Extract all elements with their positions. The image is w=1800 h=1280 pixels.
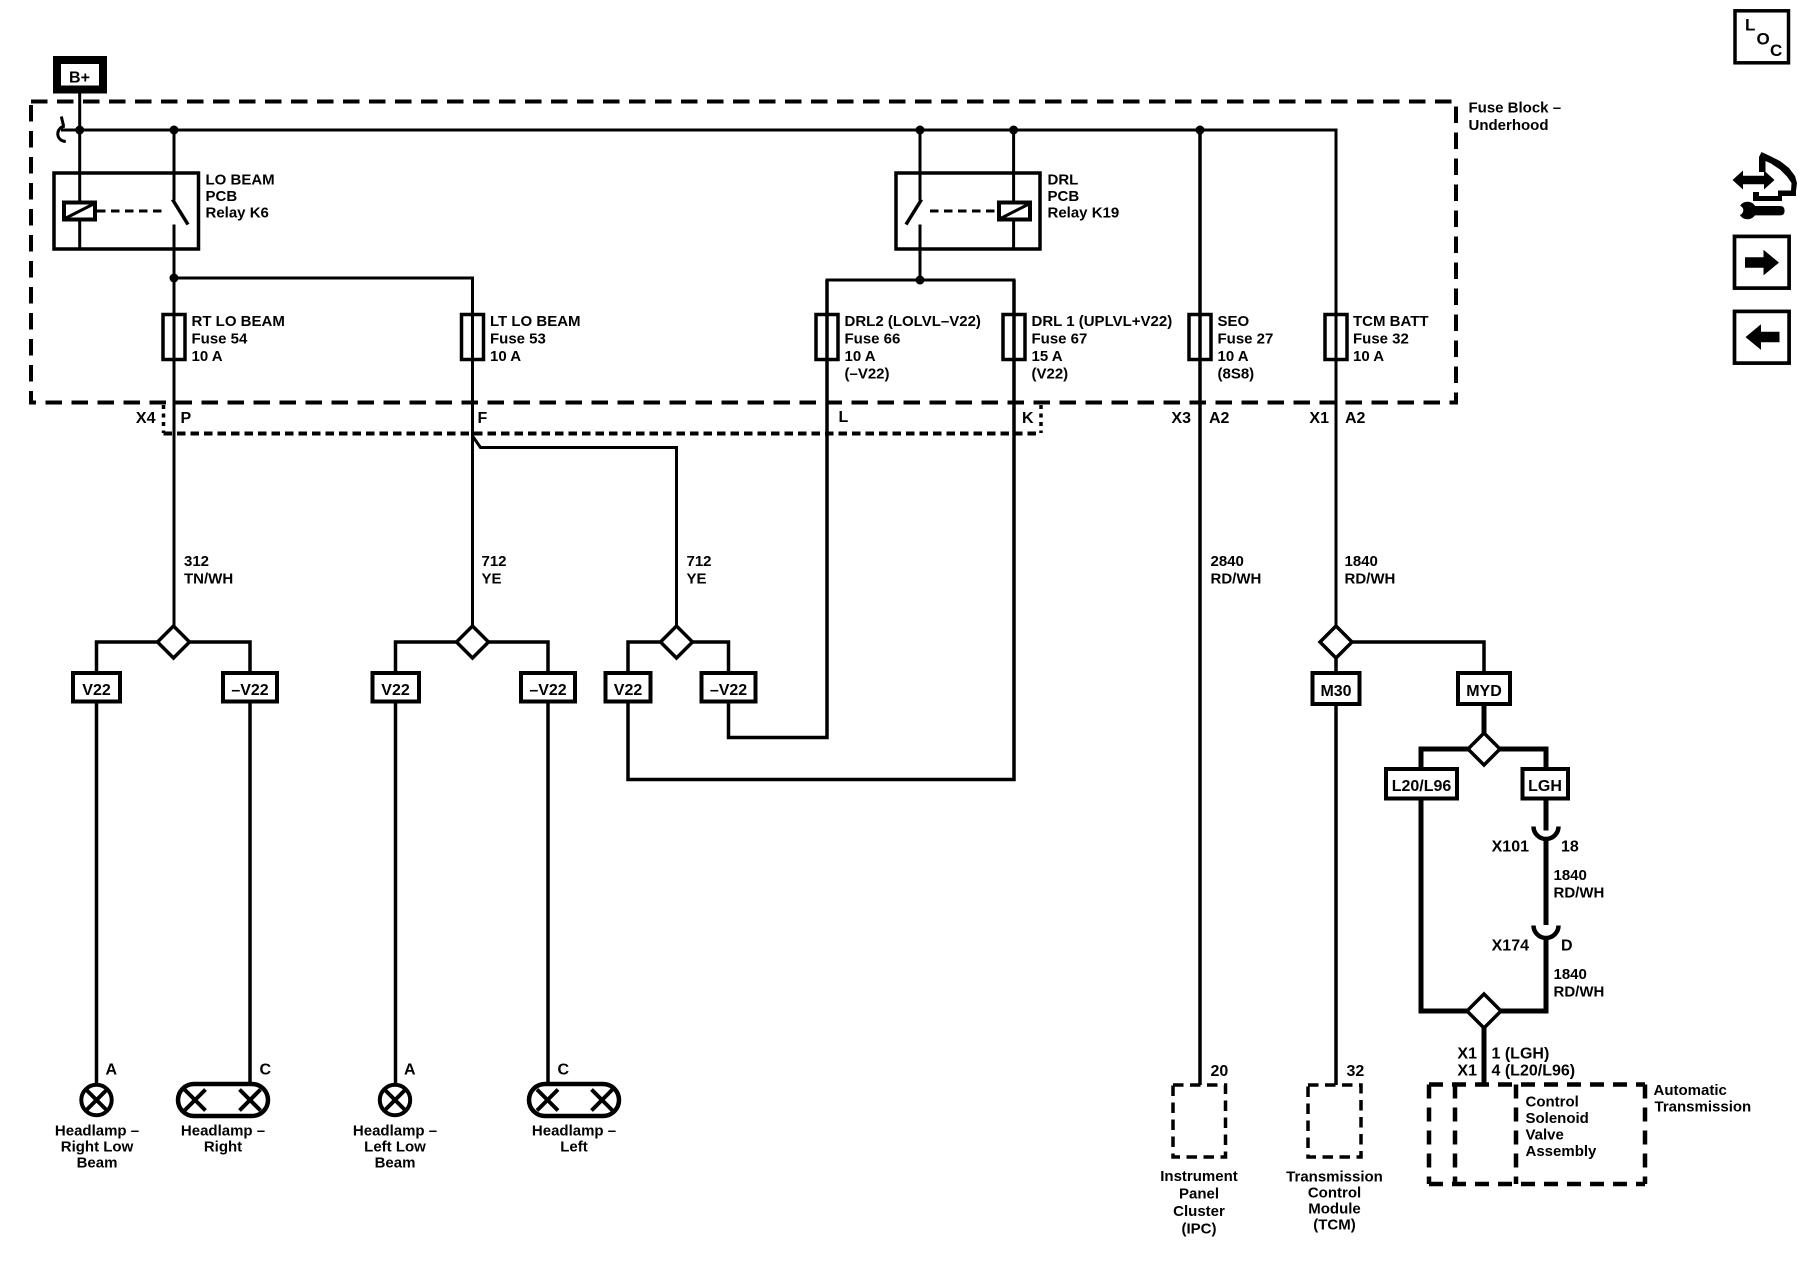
svg-text:PCB: PCB xyxy=(206,188,238,205)
svg-text:Valve: Valve xyxy=(1526,1127,1564,1144)
svg-text:Beam: Beam xyxy=(375,1155,416,1172)
svg-text:Transmission: Transmission xyxy=(1286,1169,1383,1186)
svg-text:X3: X3 xyxy=(1171,410,1191,427)
svg-text:LT LO BEAM: LT LO BEAM xyxy=(490,313,581,330)
svg-text:Relay K19: Relay K19 xyxy=(1048,205,1120,222)
svg-text:TCM BATT: TCM BATT xyxy=(1353,313,1429,330)
wire K6 switch output to fuses 54/53 xyxy=(174,225,473,315)
connector X4 dotted separator xyxy=(162,405,166,433)
svg-text:SEO: SEO xyxy=(1218,313,1250,330)
svg-text:A2: A2 xyxy=(1209,410,1230,427)
wire net F jog branch 712 YE xyxy=(473,436,677,626)
svg-text:DRL2 (LOLVL–V22): DRL2 (LOLVL–V22) xyxy=(845,313,981,330)
svg-text:YE: YE xyxy=(687,571,707,588)
svg-text:312: 312 xyxy=(184,553,209,570)
fuse 27 SEO xyxy=(1189,315,1211,360)
svg-text:10 A: 10 A xyxy=(1218,348,1249,365)
svg-text:1840: 1840 xyxy=(1345,553,1378,570)
inline connector X174 pin D xyxy=(1534,926,1559,939)
splice diamond 2 xyxy=(457,626,489,658)
svg-text:M30: M30 xyxy=(1320,683,1351,700)
bus hook terminal xyxy=(61,117,63,127)
wire relay K19 coil return xyxy=(1012,220,1015,249)
svg-text:Headlamp –: Headlamp – xyxy=(181,1123,265,1140)
svg-text:Cluster: Cluster xyxy=(1173,1203,1225,1220)
node: bus junction at coil K19 xyxy=(1009,126,1018,135)
svg-text:Solenoid: Solenoid xyxy=(1526,1110,1589,1127)
wire diamond3 to -V22 xyxy=(693,642,729,673)
svg-text:V22: V22 xyxy=(614,682,643,699)
relay K6 switch xyxy=(173,130,176,201)
wire label 1840 RD/WH xyxy=(1345,553,1396,588)
icon arrow right box xyxy=(1735,236,1790,288)
svg-text:1 (LGH): 1 (LGH) xyxy=(1492,1046,1550,1063)
svg-text:RD/WH: RD/WH xyxy=(1211,571,1262,588)
wire net TCM BATT 1840 RD/WH xyxy=(1335,315,1338,627)
wire diamond2 to -V22 xyxy=(489,642,549,673)
transmission control module box xyxy=(1308,1085,1361,1157)
svg-text:10 A: 10 A xyxy=(192,348,223,365)
svg-text:(IPC): (IPC) xyxy=(1182,1221,1217,1238)
wire MYD to engine split diamond xyxy=(1482,704,1487,733)
splice diamond 4 xyxy=(1320,626,1352,658)
wire -V22 to headlamp left xyxy=(546,702,550,1085)
instrument panel cluster box xyxy=(1173,1085,1226,1157)
svg-text:X101: X101 xyxy=(1492,839,1529,856)
label automatic transmission xyxy=(1654,1082,1752,1116)
svg-text:Fuse 66: Fuse 66 xyxy=(845,331,901,348)
svg-text:1840: 1840 xyxy=(1554,867,1587,884)
wire diamond5 to L20/L96 xyxy=(1421,749,1468,769)
wire -V22 to headlamp right xyxy=(248,702,252,1085)
svg-text:Assembly: Assembly xyxy=(1526,1143,1598,1160)
svg-text:C: C xyxy=(558,1062,570,1079)
svg-text:10 A: 10 A xyxy=(1353,348,1384,365)
svg-text:712: 712 xyxy=(482,553,507,570)
node: bus junction at switch K6 xyxy=(170,126,179,135)
wire diamond1 to -V22 xyxy=(190,642,251,673)
headlamp right lamp assembly xyxy=(178,1084,268,1116)
option box -V22 xyxy=(702,673,756,702)
wire label 712 YE xyxy=(687,553,712,588)
svg-text:(–V22): (–V22) xyxy=(845,366,890,383)
fuse 53 LT LO BEAM xyxy=(462,315,484,360)
svg-text:L: L xyxy=(1745,16,1755,35)
wire diamond2 to V22 xyxy=(396,642,457,673)
svg-text:Beam: Beam xyxy=(77,1155,118,1172)
svg-text:P: P xyxy=(181,410,192,427)
svg-text:B+: B+ xyxy=(69,70,90,87)
svg-text:Fuse 32: Fuse 32 xyxy=(1353,331,1409,348)
svg-text:Headlamp –: Headlamp – xyxy=(55,1123,139,1140)
wire relay K6 coil return xyxy=(78,220,81,249)
option box -V22 xyxy=(521,673,575,702)
wire net K fuse 67 to V22 splice xyxy=(628,280,1014,780)
svg-text:Transmission: Transmission xyxy=(1655,1099,1752,1116)
svg-text:10 A: 10 A xyxy=(490,348,521,365)
relay K19 coil xyxy=(999,203,1030,220)
wire diamond4 to MYD xyxy=(1352,642,1484,673)
svg-text:K: K xyxy=(1022,410,1034,427)
option box V22 xyxy=(606,673,651,702)
svg-text:Module: Module xyxy=(1308,1201,1361,1218)
relay K6 box xyxy=(54,173,199,249)
svg-text:RD/WH: RD/WH xyxy=(1345,571,1396,588)
icon wrench xyxy=(1734,202,1785,220)
option box L20/L96 xyxy=(1386,769,1457,799)
svg-text:F: F xyxy=(478,410,488,427)
wire X174 to merge diamond xyxy=(1501,938,1546,1012)
svg-text:18: 18 xyxy=(1561,839,1579,856)
svg-text:Fuse Block –: Fuse Block – xyxy=(1469,100,1562,117)
svg-text:Right: Right xyxy=(204,1139,242,1156)
svg-text:A: A xyxy=(106,1062,118,1079)
power symbol B+ xyxy=(57,60,103,90)
wire diamond5 to LGH xyxy=(1500,749,1546,769)
connector K dotted separator xyxy=(1039,405,1043,433)
fuse 67 DRL 1 xyxy=(1003,315,1025,360)
control solenoid valve assembly box xyxy=(1429,1085,1645,1185)
svg-text:X1: X1 xyxy=(1457,1063,1477,1080)
svg-text:MYD: MYD xyxy=(1466,683,1502,700)
splice diamond 1 xyxy=(158,626,190,658)
wire diamond3 to V22 xyxy=(628,642,661,673)
node: bus junction at SEO fuse xyxy=(1196,126,1205,135)
headlamp right low beam lamp xyxy=(81,1085,111,1115)
option box -V22 xyxy=(223,673,277,702)
svg-text:20: 20 xyxy=(1211,1063,1229,1080)
svg-text:(V22): (V22) xyxy=(1032,366,1069,383)
svg-text:1840: 1840 xyxy=(1554,966,1587,983)
svg-text:2840: 2840 xyxy=(1211,553,1244,570)
relay K6 coil xyxy=(64,203,95,220)
svg-text:YE: YE xyxy=(482,571,502,588)
svg-text:Fuse 54: Fuse 54 xyxy=(192,331,249,348)
splice diamond 5 xyxy=(1468,733,1500,765)
svg-text:Left Low: Left Low xyxy=(364,1139,426,1156)
inline connector X101 pin 18 xyxy=(1534,827,1559,839)
fuse block underhood dashed box xyxy=(31,102,1456,403)
option box LGH xyxy=(1523,769,1569,799)
svg-text:10 A: 10 A xyxy=(845,348,876,365)
splice diamond 6 xyxy=(1467,994,1501,1028)
svg-text:V22: V22 xyxy=(381,682,410,699)
icon jagged outline xyxy=(1753,152,1797,201)
svg-text:Control: Control xyxy=(1526,1094,1579,1111)
wire diamond1 to V22 xyxy=(97,642,158,673)
svg-text:L20/L96: L20/L96 xyxy=(1392,778,1452,795)
svg-text:RT LO BEAM: RT LO BEAM xyxy=(192,313,285,330)
svg-text:LO BEAM: LO BEAM xyxy=(206,172,275,189)
svg-text:L: L xyxy=(839,409,849,426)
svg-text:C: C xyxy=(260,1062,272,1079)
svg-text:X174: X174 xyxy=(1492,938,1529,955)
wire L20/L96 to merge diamond xyxy=(1421,799,1467,1012)
option box V22 xyxy=(73,673,120,702)
svg-text:712: 712 xyxy=(687,553,712,570)
svg-text:A2: A2 xyxy=(1345,410,1366,427)
connector face dotted line xyxy=(164,432,1042,436)
svg-text:V22: V22 xyxy=(82,682,111,699)
svg-text:Underhood: Underhood xyxy=(1469,117,1549,134)
svg-text:D: D xyxy=(1561,938,1573,955)
wire main bus B+ xyxy=(61,130,1336,315)
fuse 54 RT LO BEAM xyxy=(163,315,185,360)
svg-text:Headlamp –: Headlamp – xyxy=(353,1123,437,1140)
svg-text:X1: X1 xyxy=(1309,410,1329,427)
headlamp left low beam lamp xyxy=(380,1085,410,1115)
wire LGH to X101 xyxy=(1544,799,1549,831)
svg-text:Relay K6: Relay K6 xyxy=(206,205,269,222)
relay K6 label xyxy=(206,172,275,222)
svg-text:(TCM): (TCM) xyxy=(1313,1217,1355,1234)
wire diamond4 to M30 xyxy=(1334,658,1338,673)
wire label 312 TN/WH xyxy=(184,553,233,588)
svg-text:A: A xyxy=(404,1062,416,1079)
wire V22 to headlamp left low beam xyxy=(394,702,398,1085)
wire label 1840 RD/WH xyxy=(1554,966,1605,1001)
svg-text:DRL 1 (UPLVL+V22): DRL 1 (UPLVL+V22) xyxy=(1032,313,1173,330)
wire label 1840 RD/WH xyxy=(1554,867,1605,902)
wire label 2840 RD/WH xyxy=(1211,553,1262,588)
svg-text:RD/WH: RD/WH xyxy=(1554,885,1605,902)
svg-text:Fuse 27: Fuse 27 xyxy=(1218,331,1274,348)
node: bus junction at coil K6 xyxy=(75,126,84,135)
icon LOC box xyxy=(1735,11,1789,63)
svg-text:LGH: LGH xyxy=(1528,778,1562,795)
svg-text:O: O xyxy=(1757,30,1770,49)
svg-text:Automatic: Automatic xyxy=(1654,1082,1727,1099)
wire net L fuse 66 to -V22 splice xyxy=(729,280,828,738)
svg-text:Left: Left xyxy=(560,1139,588,1156)
svg-text:X4: X4 xyxy=(136,410,156,427)
svg-text:4 (L20/L96): 4 (L20/L96) xyxy=(1492,1063,1576,1080)
wire X101 to X174 xyxy=(1544,838,1549,925)
svg-text:–V22: –V22 xyxy=(231,682,268,699)
svg-text:C: C xyxy=(1770,41,1782,60)
svg-text:Control: Control xyxy=(1308,1185,1361,1202)
option box MYD xyxy=(1458,673,1510,704)
svg-text:Panel: Panel xyxy=(1179,1186,1219,1203)
svg-text:–V22: –V22 xyxy=(529,682,566,699)
wire M30 to TCM xyxy=(1334,704,1338,1085)
headlamp left lamp assembly xyxy=(529,1084,619,1116)
relay K6 control dashed link xyxy=(97,210,165,213)
wire net SEO 2840 RD/WH xyxy=(1198,130,1202,1085)
fuse 32 TCM BATT xyxy=(1325,315,1347,360)
relay K19 label xyxy=(1048,172,1120,222)
svg-text:PCB: PCB xyxy=(1048,188,1080,205)
wire V22 to headlamp right low beam xyxy=(95,702,99,1085)
svg-text:15 A: 15 A xyxy=(1032,348,1063,365)
svg-text:DRL: DRL xyxy=(1048,172,1079,189)
wire diamond6 to control solenoid xyxy=(1482,1028,1487,1085)
icon arrow left box xyxy=(1735,311,1790,363)
wire B+ feed to coil K6 xyxy=(78,94,81,203)
relay K19 switch xyxy=(919,130,922,201)
svg-text:X1: X1 xyxy=(1457,1046,1477,1063)
wire label 712 YE xyxy=(482,553,507,588)
svg-text:32: 32 xyxy=(1347,1063,1365,1080)
label Fuse Block - Underhood xyxy=(1469,100,1562,135)
wire net F through fuse 53 xyxy=(471,278,474,626)
svg-text:TN/WH: TN/WH xyxy=(184,571,233,588)
svg-text:Instrument: Instrument xyxy=(1160,1168,1238,1185)
wire relay K19 coil feed xyxy=(1012,130,1015,202)
svg-text:Fuse 53: Fuse 53 xyxy=(490,331,546,348)
option box M30 xyxy=(1313,673,1360,704)
svg-text:Right Low: Right Low xyxy=(61,1139,134,1156)
wire K19 switch output to fuses 66/67 xyxy=(919,225,922,281)
node: bus junction at switch K19 xyxy=(916,126,925,135)
svg-text:Headlamp –: Headlamp – xyxy=(532,1123,616,1140)
svg-text:(8S8): (8S8) xyxy=(1218,366,1255,383)
svg-text:RD/WH: RD/WH xyxy=(1554,984,1605,1001)
svg-text:–V22: –V22 xyxy=(710,682,747,699)
relay K19 box xyxy=(896,173,1040,249)
fuse 66 DRL2 xyxy=(816,315,838,360)
icon double arrow xyxy=(1733,171,1775,190)
splice diamond 3 xyxy=(661,626,693,658)
svg-text:Fuse 67: Fuse 67 xyxy=(1032,331,1088,348)
option box V22 xyxy=(373,673,420,702)
relay K19 control dashed link xyxy=(930,210,998,213)
